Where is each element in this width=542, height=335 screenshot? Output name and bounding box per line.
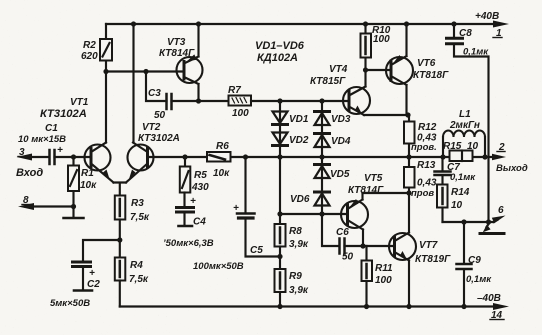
svg-text:3,9к: 3,9к — [289, 239, 309, 250]
node C5 to R8 R9 — [279, 247, 281, 270]
svg-text:С5: С5 — [250, 245, 263, 256]
svg-text:КТ818Г: КТ818Г — [413, 70, 449, 81]
node L1 right — [482, 154, 487, 159]
node output line R12 R13 — [406, 154, 411, 159]
wire R10 to VT6 base — [366, 69, 392, 71]
capacitor C5 100mk x 50V — [193, 157, 280, 272]
node VD6 bottom — [319, 211, 324, 216]
svg-text:С2: С2 — [87, 279, 100, 290]
svg-text:5мк×50В: 5мк×50В — [50, 298, 90, 309]
wire VT2 collector to top rail — [132, 24, 134, 143]
svg-text:КТ815Г: КТ815Г — [310, 76, 346, 87]
resistor R3 7.5k — [115, 196, 150, 258]
svg-text:R5: R5 — [194, 170, 207, 181]
resistor R4 7.5k — [115, 258, 149, 307]
svg-text:0,43: 0,43 — [417, 178, 437, 189]
svg-text:R2: R2 — [83, 40, 96, 51]
node VT6 collector junction — [405, 112, 410, 117]
node base VT1 — [71, 154, 76, 159]
terminal 3 input arrow — [16, 147, 48, 179]
resistor R9 3.9k — [275, 269, 309, 307]
node VT6 base — [363, 67, 368, 72]
svg-text:VD5: VD5 — [330, 169, 350, 180]
node mid line left column — [277, 154, 282, 159]
resistor R11 100 — [362, 246, 394, 307]
ground right — [480, 222, 504, 234]
terminal 8 arrow — [18, 195, 74, 210]
svg-text:С1: С1 — [45, 123, 58, 134]
capacitor C7 0.1mk — [435, 157, 477, 185]
resistor R14 10 — [437, 185, 470, 223]
svg-text:6: 6 — [498, 205, 504, 216]
svg-text:КТ814Г: КТ814Г — [159, 48, 195, 59]
svg-text:КД102А: КД102А — [257, 52, 298, 64]
svg-text:Выход: Выход — [496, 163, 528, 174]
svg-text:VT1: VT1 — [70, 97, 89, 108]
svg-text:VD4: VD4 — [331, 136, 351, 147]
svg-text:+: + — [233, 203, 239, 214]
svg-text:–40В: –40В — [477, 293, 501, 304]
svg-text:R8: R8 — [289, 226, 302, 237]
terminal 1 +40V arrow — [475, 11, 509, 39]
svg-text:+40В: +40В — [475, 11, 499, 22]
svg-text:VD6: VD6 — [290, 194, 310, 205]
node R1 bottom — [71, 204, 76, 209]
node R11 on bottom rail — [364, 304, 369, 309]
diode VD4 — [315, 134, 351, 148]
wire emitters common — [114, 183, 127, 196]
svg-text:КТ814Г: КТ814Г — [348, 185, 384, 196]
transistor VT1 KT3102A — [40, 97, 114, 183]
node VT2 collector on top rail — [131, 21, 136, 26]
svg-text:R15: R15 — [443, 141, 462, 152]
svg-text:VD1–VD6: VD1–VD6 — [255, 40, 305, 52]
svg-text:VT7: VT7 — [419, 240, 438, 251]
svg-text:VT3: VT3 — [167, 37, 186, 48]
svg-text:0,1мк: 0,1мк — [463, 47, 489, 58]
svg-text:VT5: VT5 — [364, 173, 383, 184]
svg-text:КТ3102А: КТ3102А — [40, 108, 87, 120]
svg-text:R11: R11 — [375, 263, 393, 274]
node VT3 base line — [103, 69, 108, 74]
svg-text:7,5к: 7,5к — [129, 274, 149, 285]
node VT5 collector junction — [360, 243, 365, 248]
resistor R1 10k — [68, 157, 97, 207]
svg-text:430: 430 — [191, 182, 209, 193]
svg-text:R3: R3 — [131, 198, 144, 209]
svg-text:3,9к: 3,9к — [289, 285, 309, 296]
wire VT4 emitter to R12 — [364, 114, 409, 116]
wire bottom -40V rail — [120, 305, 496, 307]
svg-text:КТ3102А: КТ3102А — [138, 133, 180, 144]
node C9 on bottom rail — [461, 304, 466, 309]
node C8 on top rail — [451, 21, 456, 26]
svg-text:С4: С4 — [193, 217, 206, 228]
node VT3 emitter on top rail — [196, 21, 201, 26]
wire VD6 column down to C6 — [322, 214, 339, 246]
svg-text:10: 10 — [467, 141, 479, 152]
svg-text:VD1: VD1 — [289, 114, 309, 125]
svg-text:0,1мк: 0,1мк — [466, 274, 492, 285]
wire left column to R8 — [279, 157, 281, 224]
transistor VT2 KT3102A — [126, 122, 180, 183]
capacitor C3 50 — [146, 72, 199, 122]
transistor VT6 KT818G — [386, 24, 449, 115]
svg-text:10к: 10к — [80, 180, 97, 191]
svg-text:100мк×50В: 100мк×50В — [193, 261, 244, 272]
diode VD1 — [273, 101, 309, 157]
node VT6 emitter on top rail — [404, 21, 409, 26]
resistor R8 3.9k — [275, 224, 309, 250]
capacitor C4 50mk x 6.3V — [163, 193, 214, 250]
node VT5 base line left — [277, 211, 282, 216]
svg-text:2мкГн: 2мкГн — [449, 120, 480, 131]
inductor L1 2mkGn — [443, 109, 485, 157]
diode VD5 — [315, 157, 350, 214]
wire VT5 emitter line — [363, 192, 410, 194]
node R9 on bottom rail — [277, 304, 282, 309]
capacitor C2 5mk x 50V — [50, 240, 120, 309]
svg-text:VT6: VT6 — [417, 58, 436, 69]
svg-text:100: 100 — [373, 34, 390, 45]
node L1 left — [440, 154, 445, 159]
node C9 branch — [461, 219, 466, 224]
resistor R2 620 — [81, 24, 112, 72]
svg-text:R4: R4 — [130, 260, 143, 271]
svg-text:Вход: Вход — [16, 167, 43, 179]
svg-text:+: + — [190, 196, 196, 207]
svg-text:10 мк×15В: 10 мк×15В — [18, 134, 66, 145]
svg-text:R14: R14 — [451, 187, 470, 198]
svg-text:+: + — [57, 145, 63, 156]
node R13 bottom VT7 collector — [406, 190, 411, 195]
wire ground bus — [443, 221, 494, 223]
capacitor C6 50 — [336, 227, 394, 263]
svg-text:С9: С9 — [468, 255, 481, 266]
node mid line right column — [319, 154, 324, 159]
svg-text:R9: R9 — [289, 271, 302, 282]
svg-text:VD3: VD3 — [331, 114, 351, 125]
diode VD3 — [315, 101, 351, 157]
svg-text:С3: С3 — [148, 88, 161, 99]
node R3-R4 C2 branch — [117, 237, 122, 242]
node VT7 emitter on bottom rail — [406, 304, 411, 309]
capacitor C1 10mk x 15V — [18, 123, 91, 164]
svg-text:+: + — [89, 268, 95, 279]
svg-text:L1: L1 — [459, 109, 471, 120]
wire top +40V rail — [106, 23, 496, 25]
svg-text:КТ819Г: КТ819Г — [415, 254, 451, 265]
svg-text:0,1мк: 0,1мк — [450, 172, 476, 183]
svg-text:С8: С8 — [459, 28, 472, 39]
trimmer R6 10k — [207, 141, 231, 179]
svg-text:R6: R6 — [216, 141, 229, 152]
svg-text:50: 50 — [154, 110, 166, 121]
svg-text:R7: R7 — [228, 85, 241, 96]
svg-text:10: 10 — [451, 200, 463, 211]
node C5 branch — [243, 154, 248, 159]
svg-text:пров: пров — [411, 188, 434, 199]
svg-text:’50мк×6,3В: ’50мк×6,3В — [163, 238, 214, 249]
svg-text:VT4: VT4 — [329, 64, 348, 75]
transistor VT5 KT814G — [341, 173, 384, 246]
node C8 column bottom — [486, 219, 491, 224]
resistor R13 0.43 wire — [404, 157, 437, 199]
svg-text:100: 100 — [232, 108, 249, 119]
transistor VT3 KT814G — [159, 24, 203, 101]
svg-text:VD2: VD2 — [289, 135, 309, 146]
svg-text:620: 620 — [81, 51, 98, 62]
transistor VT7 KT819G — [389, 193, 451, 307]
terminal 2 output arrow — [492, 142, 528, 174]
svg-text:10к: 10к — [213, 168, 230, 179]
terminal 6 arrow — [492, 205, 506, 223]
wire R2 to VT3 base — [106, 70, 184, 72]
wire mid output/feedback line — [148, 156, 496, 158]
node C3 branch — [143, 69, 148, 74]
svg-text:R13: R13 — [417, 160, 436, 171]
svg-text:С6: С6 — [336, 227, 349, 238]
svg-text:7,5к: 7,5к — [130, 212, 150, 223]
node R5 branch — [182, 154, 187, 159]
resistor R7 100 — [199, 85, 350, 119]
resistor R10 100 — [361, 24, 391, 70]
svg-text:50: 50 — [342, 252, 354, 263]
diode VD6 — [290, 192, 330, 206]
resistor R15 10 — [443, 141, 479, 161]
svg-text:R12: R12 — [418, 122, 437, 133]
capacitor C9 0.1mk — [457, 222, 493, 307]
capacitor C8 0.1mk — [447, 24, 490, 221]
svg-text:пров.: пров. — [411, 142, 437, 153]
label VD1-VD6 KD102A — [255, 40, 305, 64]
wire VT1 collector to R2 — [105, 72, 107, 143]
resistor R5 430 — [180, 157, 209, 193]
diode VD2 — [273, 133, 309, 147]
svg-text:VT2: VT2 — [142, 122, 161, 133]
node R10 on top rail — [363, 21, 368, 26]
svg-text:100: 100 — [375, 275, 392, 286]
resistor R12 0.43 wire — [404, 115, 437, 157]
transistor VT4 KT815G — [310, 64, 370, 115]
node top left diode column — [277, 98, 282, 103]
node top right diode column — [319, 98, 324, 103]
wire VT5 base line — [280, 213, 348, 215]
node VT3 collector — [196, 98, 201, 103]
ground left — [64, 207, 84, 219]
terminal 14 -40V arrow — [477, 293, 509, 321]
